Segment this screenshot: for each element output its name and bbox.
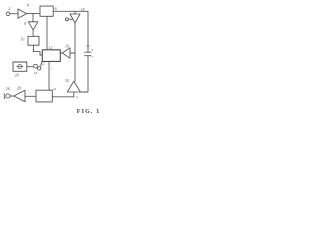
wire detector 8 to box 10	[32, 30, 34, 37]
wire branch down to detector 8	[32, 14, 34, 22]
label 12	[49, 46, 53, 50]
box 10	[28, 36, 39, 45]
amplifier 16	[62, 48, 70, 59]
output terminal 26	[6, 94, 10, 98]
rail wire right side	[80, 11, 88, 92]
box 24	[36, 90, 52, 102]
wire amp 28 to output terminal 26	[10, 95, 14, 97]
caption FIG. 1	[77, 109, 101, 115]
svg-text:4: 4	[27, 3, 29, 8]
meter 20	[13, 62, 27, 71]
wire branch down to inverter 18	[74, 11, 76, 14]
amplifier 30	[67, 81, 80, 92]
svg-text:2: 2	[8, 6, 10, 11]
wire coupler 22 to box 12	[41, 62, 42, 67]
svg-text:12: 12	[49, 46, 53, 50]
label 26	[86, 44, 90, 48]
input terminal 2	[6, 12, 10, 16]
label 6	[55, 6, 58, 11]
wire meter 20 to coupler 22	[27, 66, 34, 68]
label tick at amp 30 output	[76, 95, 78, 99]
label tick capacitor lower	[91, 55, 93, 59]
amplifier 4	[18, 9, 27, 18]
label tick capacitor	[91, 48, 93, 52]
svg-text:FIG. 1: FIG. 1	[77, 109, 101, 115]
capacitor 26 top plate	[85, 51, 91, 53]
svg-text:18: 18	[81, 8, 85, 12]
capacitor 26 bottom plate	[85, 55, 91, 57]
wire box 10 to box 12	[34, 45, 43, 55]
svg-text:16: 16	[65, 45, 69, 49]
wire box 12 bottom to box 24 top	[48, 61, 50, 90]
wire box 24 to amp 28	[25, 95, 36, 97]
wire box 6 bottom to box 12 top	[46, 16, 48, 50]
label 10	[20, 38, 24, 42]
label tick on wire 12-24	[51, 67, 53, 71]
label 16	[65, 45, 69, 49]
wire terminal to inverter 18	[68, 18, 72, 20]
svg-text:10: 10	[20, 38, 24, 42]
wire amp 16 to box 12	[60, 52, 62, 54]
inverter 18	[70, 14, 80, 23]
label 4	[27, 3, 29, 8]
meter 20 symbol	[18, 65, 22, 69]
svg-text:7: 7	[91, 55, 93, 59]
node wire inverter 18 down to amp 16 and amp 30	[70, 23, 75, 81]
box 12	[42, 50, 60, 62]
label 24	[53, 87, 57, 91]
svg-text:24: 24	[53, 87, 57, 91]
svg-text:4: 4	[76, 95, 78, 99]
amplifier 28	[14, 90, 25, 101]
bottom wire to box 24	[52, 96, 74, 98]
label 22	[41, 61, 45, 65]
label 30	[65, 79, 69, 83]
svg-text:4: 4	[91, 48, 93, 52]
wire amp 4 to box 6	[27, 12, 40, 14]
box 6	[40, 6, 53, 16]
label 20	[15, 73, 19, 77]
label 18	[81, 8, 85, 12]
svg-text:2: 2	[51, 67, 53, 71]
output terminal bar	[3, 93, 5, 98]
svg-text:6: 6	[55, 6, 58, 11]
wire amp 30 to bottom wire	[73, 92, 75, 97]
label tick below coupler	[34, 71, 38, 75]
label 8	[24, 21, 26, 26]
wire box 6 right to rail	[53, 10, 88, 12]
terminal at inverter 18	[65, 18, 68, 21]
svg-text:28: 28	[17, 86, 21, 90]
label 2	[8, 6, 10, 11]
svg-text:8: 8	[24, 21, 26, 26]
label 28	[17, 86, 21, 90]
detector triangle 8	[28, 22, 38, 30]
coupler 22	[34, 64, 38, 68]
svg-text:30: 30	[65, 79, 69, 83]
svg-text:20: 20	[15, 73, 19, 77]
svg-text:26: 26	[6, 87, 10, 91]
label 26 output	[6, 87, 10, 91]
wire input to amp 4	[10, 13, 18, 15]
svg-text:18: 18	[34, 71, 38, 75]
